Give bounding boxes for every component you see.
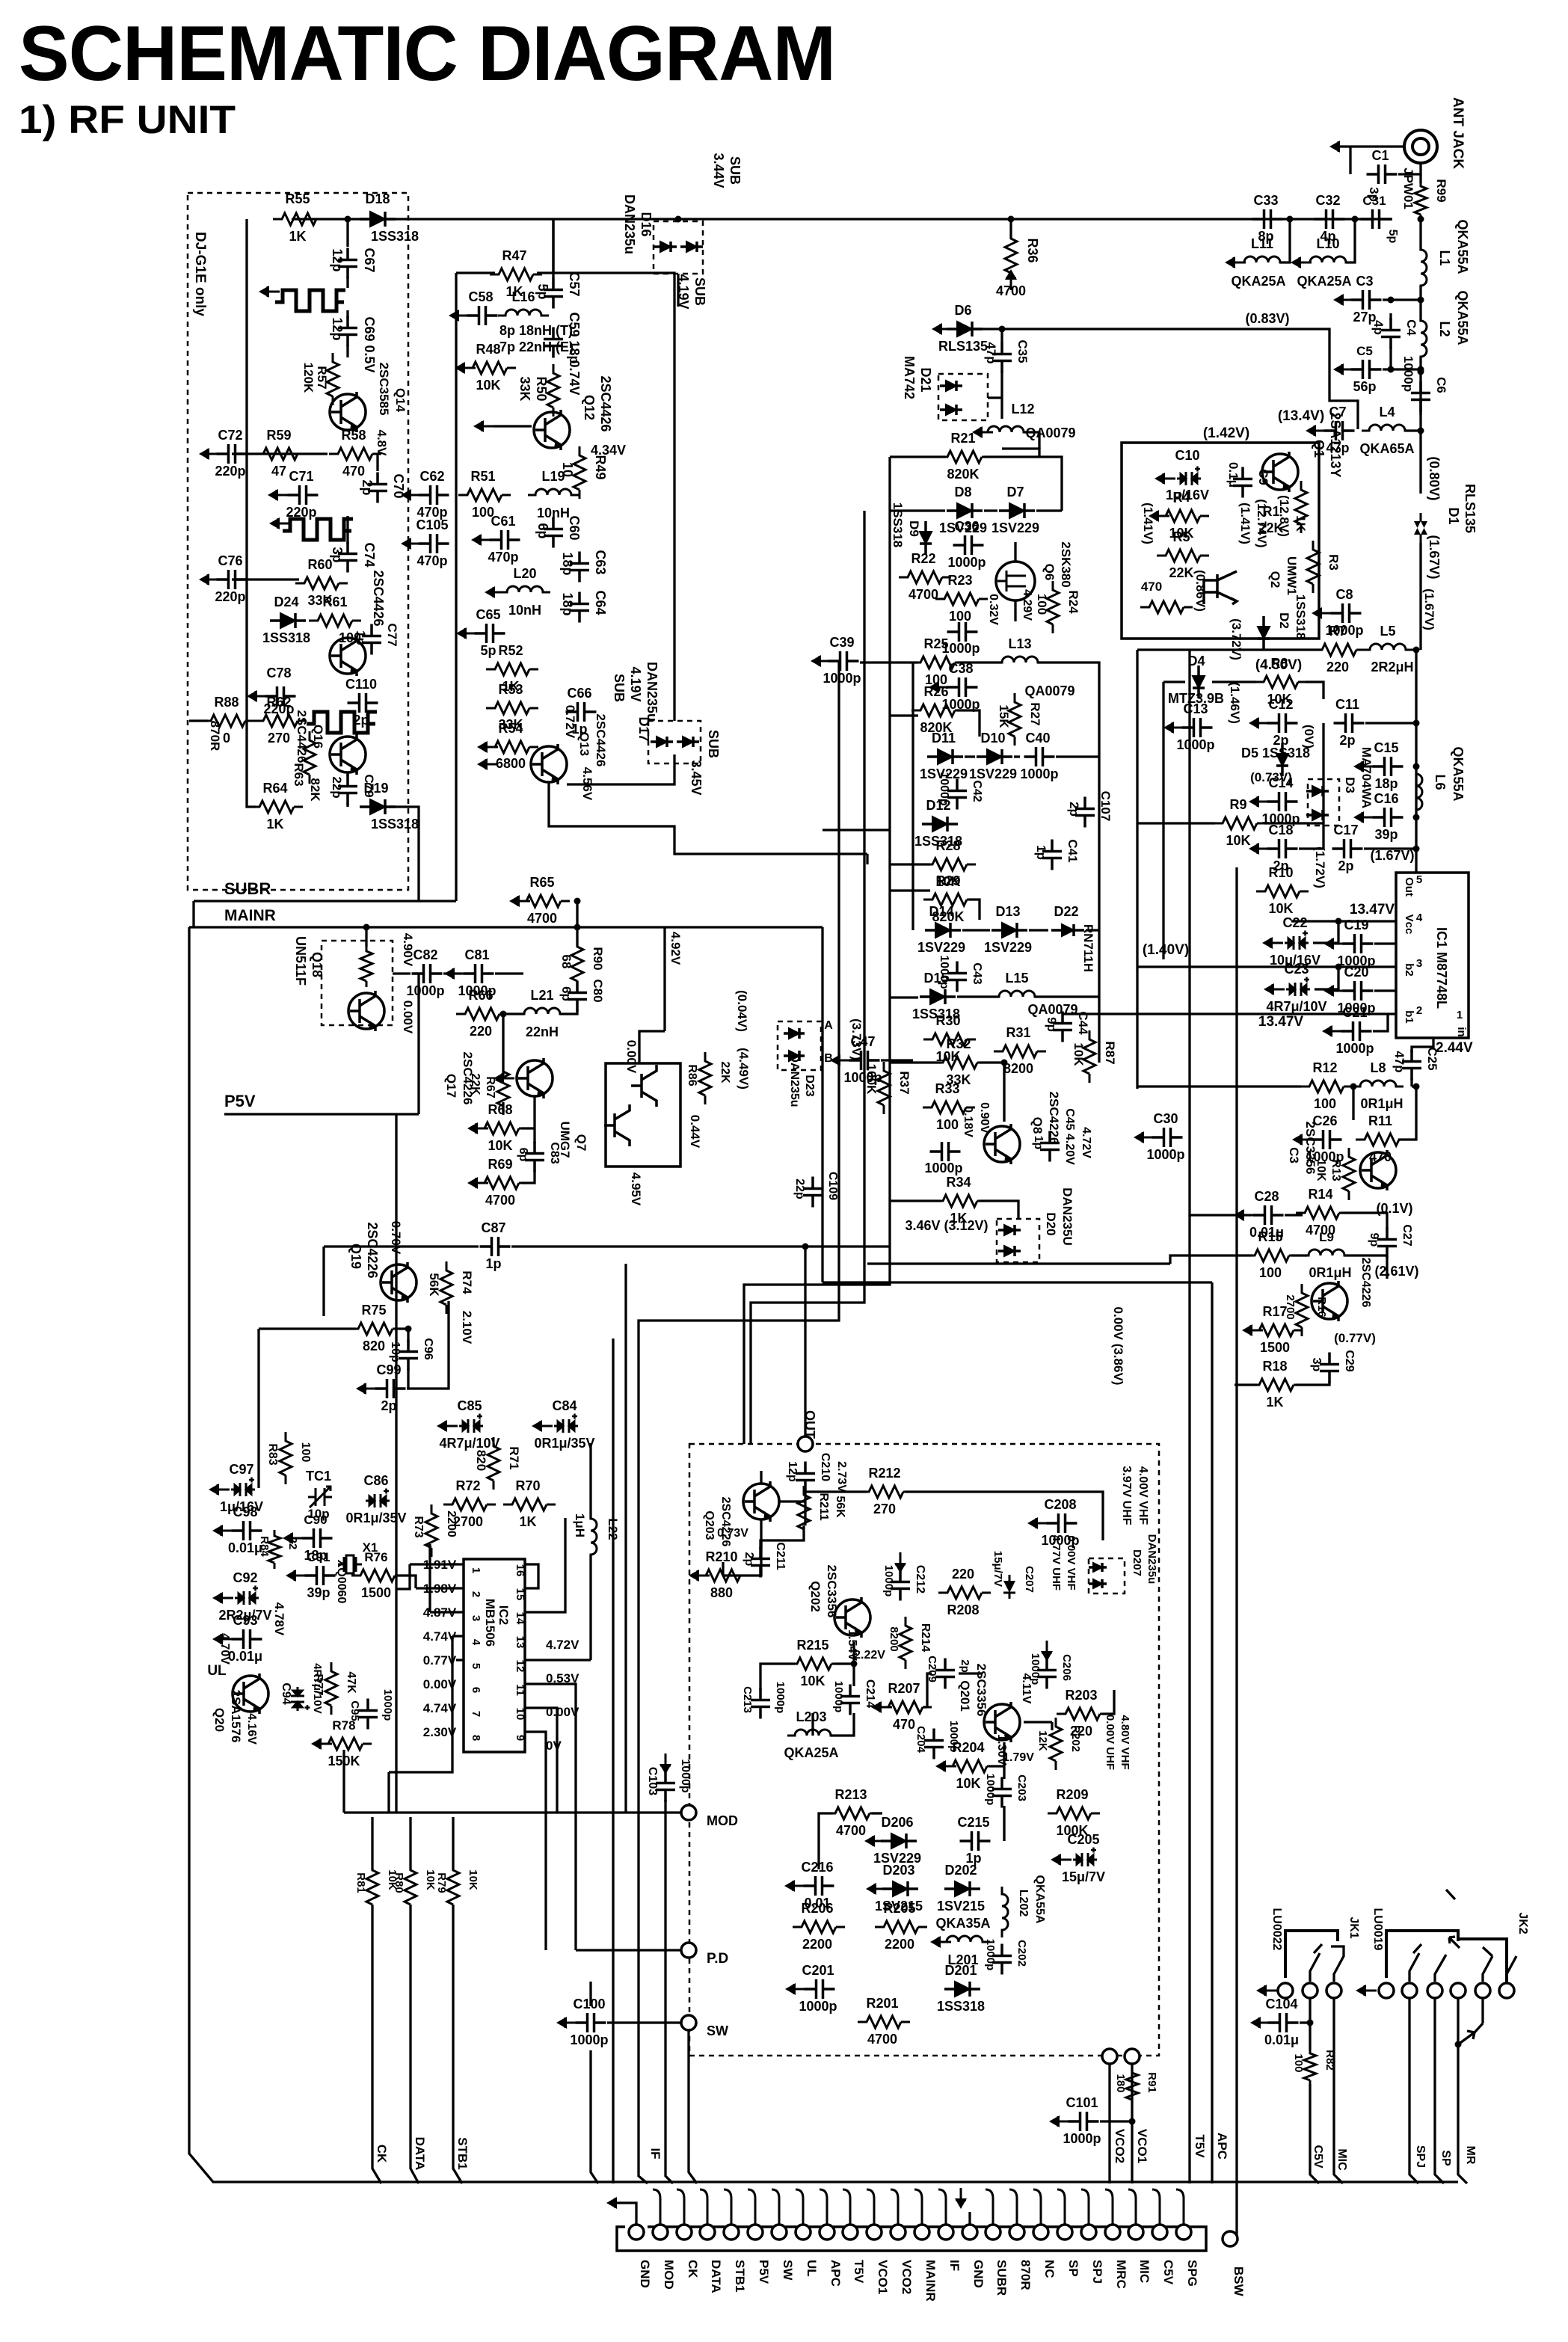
ground xyxy=(830,1054,851,1066)
diode D206 xyxy=(881,1834,917,1848)
svg-text:b2: b2 xyxy=(1403,963,1415,977)
resonator F2 xyxy=(283,519,353,540)
ground xyxy=(1353,811,1374,823)
capacitor C25 xyxy=(1402,1050,1421,1081)
resistor R76 xyxy=(351,1570,404,1582)
wire T5V down xyxy=(1188,1215,1190,2183)
svg-text:D5 1SS318: D5 1SS318 xyxy=(1241,746,1310,760)
svg-text:UN511F: UN511F xyxy=(293,936,308,986)
capacitor C105 xyxy=(419,534,449,553)
svg-text:2SC3356: 2SC3356 xyxy=(825,1565,839,1618)
wire xyxy=(1386,1256,1388,1279)
capacitor C26 xyxy=(1312,1130,1342,1149)
svg-text:C5V: C5V xyxy=(1312,2145,1324,2168)
wire xyxy=(1086,929,1099,931)
svg-text:10K: 10K xyxy=(488,1138,512,1153)
svg-text:C82: C82 xyxy=(413,947,437,962)
svg-text:2.73V: 2.73V xyxy=(835,1461,848,1493)
wire xyxy=(1419,543,1421,650)
ground xyxy=(866,1883,887,1895)
wire xyxy=(1353,219,1356,247)
wire xyxy=(1338,145,1404,147)
wire xyxy=(1398,163,1421,174)
capacitor C15 xyxy=(1373,757,1403,776)
svg-text:870R: 870R xyxy=(1018,2260,1033,2290)
wire xyxy=(821,1247,823,1282)
svg-text:R86: R86 xyxy=(686,1064,698,1086)
wire xyxy=(1352,1087,1354,1120)
svg-text:470: 470 xyxy=(893,1717,915,1732)
svg-text:D206: D206 xyxy=(881,1815,913,1830)
ground xyxy=(606,2197,627,2209)
resistor R50 xyxy=(547,364,559,417)
dashed box D20 xyxy=(997,1219,1039,1262)
dashed box VCO xyxy=(689,1444,1159,2056)
svg-text:0R1μ/35V: 0R1μ/35V xyxy=(345,1510,406,1525)
transistor Q8 xyxy=(984,1124,1020,1164)
svg-text:R69: R69 xyxy=(488,1157,512,1172)
svg-text:1p: 1p xyxy=(1032,1136,1045,1150)
svg-text:L8: L8 xyxy=(1370,1060,1386,1075)
svg-text:R8: R8 xyxy=(1270,656,1288,671)
svg-text:C81: C81 xyxy=(464,947,489,962)
capacitor C71 xyxy=(288,485,319,505)
svg-text:Q2: Q2 xyxy=(1268,571,1282,588)
junction xyxy=(851,1661,858,1668)
svg-text:R27: R27 xyxy=(1028,702,1042,725)
svg-text:VCO2: VCO2 xyxy=(1113,2129,1127,2163)
svg-text:(0.80V): (0.80V) xyxy=(1427,456,1442,500)
inductor L201 xyxy=(939,1936,990,1942)
capacitor C108 xyxy=(803,1177,823,1208)
inductor L10 xyxy=(1303,256,1353,262)
switch JK1 contacts xyxy=(1310,1944,1344,1982)
wire xyxy=(890,1199,941,1202)
svg-text:13.47V: 13.47V xyxy=(1258,1014,1304,1030)
svg-text:L20: L20 xyxy=(513,566,536,581)
svg-text:(12.8V): (12.8V) xyxy=(1277,495,1291,537)
svg-text:C65: C65 xyxy=(476,607,500,622)
capacitor C70 xyxy=(368,473,387,503)
ground xyxy=(401,489,422,501)
wire xyxy=(521,1127,535,1129)
capacitor C214 xyxy=(840,1685,860,1715)
IC U IC1 xyxy=(1396,873,1469,1038)
resistor R67 xyxy=(497,1063,509,1115)
node SW xyxy=(681,2015,696,2030)
capacitor C60 xyxy=(544,517,563,548)
pin STB1 xyxy=(724,2225,739,2240)
ground xyxy=(477,758,498,770)
svg-text:STB1: STB1 xyxy=(733,2260,747,2292)
capacitor C33 xyxy=(1252,209,1283,229)
svg-text:22K: 22K xyxy=(1169,565,1193,580)
capacitor C11 xyxy=(1334,713,1365,733)
svg-text:2SC3585: 2SC3585 xyxy=(377,363,391,416)
svg-text:22nH: 22nH xyxy=(526,1024,559,1039)
wire xyxy=(881,1059,913,1061)
wire xyxy=(1024,432,1039,449)
resistor R48 xyxy=(464,362,516,374)
svg-text:C96: C96 xyxy=(422,1338,434,1359)
svg-text:220: 220 xyxy=(470,1024,492,1039)
svg-text:22K: 22K xyxy=(469,1073,482,1095)
resistor R23 xyxy=(935,593,988,605)
svg-text:22p: 22p xyxy=(793,1178,806,1199)
wire xyxy=(823,829,890,831)
wire xyxy=(1212,680,1256,683)
svg-text:R70: R70 xyxy=(515,1478,540,1493)
svg-text:Q6: Q6 xyxy=(1042,564,1057,581)
wire xyxy=(821,927,823,1247)
svg-text:C78: C78 xyxy=(266,666,291,680)
svg-text:R11: R11 xyxy=(1368,1113,1392,1128)
wire xyxy=(1419,218,1421,251)
svg-text:4: 4 xyxy=(1416,912,1423,924)
svg-text:RLS135: RLS135 xyxy=(1463,484,1478,533)
svg-text:R201: R201 xyxy=(866,1996,898,2011)
ground xyxy=(1041,1641,1053,1662)
svg-text:R34: R34 xyxy=(946,1175,971,1190)
resistor R209 xyxy=(1048,1807,1100,1819)
svg-text:820: 820 xyxy=(363,1338,385,1353)
svg-text:IF: IF xyxy=(947,2260,962,2271)
svg-text:D1: D1 xyxy=(1446,507,1461,524)
wire xyxy=(723,1519,761,1576)
svg-text:R26: R26 xyxy=(923,684,948,699)
svg-text:C30: C30 xyxy=(1153,1111,1178,1126)
resistor R4 xyxy=(1157,510,1209,522)
capacitor C3 xyxy=(1351,290,1382,310)
wire xyxy=(927,1673,932,1707)
junction xyxy=(1352,216,1359,223)
svg-text:R78: R78 xyxy=(332,1718,355,1733)
wire left inner xyxy=(247,247,256,807)
wire MIC xyxy=(1334,1998,1343,2183)
capacitor C97 xyxy=(231,1478,255,1497)
svg-text:C61: C61 xyxy=(491,514,515,529)
pin GND xyxy=(962,2225,977,2240)
svg-text:C203: C203 xyxy=(1015,1774,1028,1801)
capacitor C78 xyxy=(265,686,296,706)
svg-text:1000p: 1000p xyxy=(570,2032,608,2047)
dashed box D21 xyxy=(938,374,988,420)
svg-text:B: B xyxy=(824,1052,833,1065)
ground xyxy=(268,489,289,501)
wire xyxy=(259,1327,356,1330)
svg-text:4R7μ/10V: 4R7μ/10V xyxy=(439,1436,499,1451)
svg-text:(13.4V): (13.4V) xyxy=(1278,408,1324,424)
wire xyxy=(1389,313,1392,320)
pin T5V xyxy=(843,2225,858,2240)
svg-text:C66: C66 xyxy=(567,686,591,701)
ground xyxy=(1323,938,1344,950)
wire xyxy=(567,754,674,784)
connector JK1 body xyxy=(1285,1931,1338,1978)
pin CK xyxy=(677,2225,692,2240)
svg-text:R4: R4 xyxy=(1172,490,1190,505)
capacitor C7 xyxy=(1324,421,1355,440)
svg-text:0.74V: 0.74V xyxy=(567,360,582,395)
svg-text:39p: 39p xyxy=(307,1585,330,1600)
wire xyxy=(525,1659,591,1661)
svg-text:GND: GND xyxy=(971,2260,986,2288)
svg-text:1000p: 1000p xyxy=(1146,1147,1184,1162)
capacitor C36 xyxy=(953,535,984,555)
wire xyxy=(831,1713,854,1736)
wire xyxy=(395,1329,408,1341)
wire xyxy=(456,271,495,274)
junction xyxy=(345,216,351,223)
ground xyxy=(1353,760,1374,772)
svg-text:QKA25A: QKA25A xyxy=(1231,274,1285,289)
pin JK1 tip xyxy=(1326,1983,1341,1998)
connector JK2 body xyxy=(1386,1931,1507,1983)
svg-text:10K: 10K xyxy=(1226,833,1250,848)
resistor Q18R xyxy=(360,945,372,987)
resistor R74 xyxy=(440,1261,452,1314)
capacitor C5 xyxy=(1351,360,1382,379)
svg-text:120K: 120K xyxy=(301,363,316,393)
svg-text:10K: 10K xyxy=(1315,1159,1327,1181)
resistor R3 xyxy=(1307,541,1319,593)
svg-text:9: 9 xyxy=(514,1735,526,1741)
capacitor C27 xyxy=(1377,1228,1397,1258)
ground xyxy=(932,323,953,335)
capacitor C62 xyxy=(419,485,449,505)
wire xyxy=(957,661,1002,663)
diode D16b xyxy=(680,242,703,252)
svg-text:NC: NC xyxy=(1042,2260,1057,2278)
svg-text:2SK380: 2SK380 xyxy=(1059,541,1073,587)
svg-text:5: 5 xyxy=(470,1663,482,1669)
wire xyxy=(1235,1383,1257,1386)
svg-text:D203: D203 xyxy=(882,1863,914,1878)
wire xyxy=(389,1636,452,1772)
svg-text:C22: C22 xyxy=(1282,915,1307,930)
svg-text:QA0079: QA0079 xyxy=(1024,683,1074,698)
svg-text:10p: 10p xyxy=(389,1341,402,1362)
svg-text:4.72V: 4.72V xyxy=(1080,1127,1092,1158)
ground xyxy=(930,1936,951,1948)
wire BSW line xyxy=(1235,867,1238,2239)
capacitor C41 xyxy=(1042,840,1062,870)
svg-text:5p: 5p xyxy=(535,283,550,299)
svg-text:C110: C110 xyxy=(345,677,377,692)
wire xyxy=(867,1262,1170,1264)
diode D20a xyxy=(998,1225,1021,1235)
svg-text:C76: C76 xyxy=(218,553,242,568)
pin JK2-5 xyxy=(1475,1983,1490,1998)
svg-text:STB1: STB1 xyxy=(455,2137,470,2169)
svg-text:C101: C101 xyxy=(1066,2095,1098,2110)
svg-text:D12: D12 xyxy=(926,798,950,813)
svg-text:13: 13 xyxy=(514,1636,526,1649)
svg-text:2: 2 xyxy=(1416,1004,1422,1017)
svg-text:18p: 18p xyxy=(560,552,575,575)
transistor Q15 xyxy=(330,636,366,676)
ground xyxy=(811,655,831,667)
resistor R79 xyxy=(447,1861,459,1914)
ground xyxy=(1155,473,1175,485)
svg-text:C28: C28 xyxy=(1254,1189,1279,1204)
ground xyxy=(449,310,470,322)
svg-text:R32: R32 xyxy=(946,1036,971,1051)
svg-text:C19: C19 xyxy=(1344,918,1368,932)
capacitor C61 xyxy=(490,530,520,550)
ground xyxy=(1322,1025,1343,1037)
svg-text:(0.04V): (0.04V) xyxy=(735,990,749,1032)
svg-text:DJ-G1E only: DJ-G1E only xyxy=(192,232,208,316)
resistor R78 xyxy=(319,1738,372,1750)
resistor R61 xyxy=(309,615,361,627)
pin JK2-6 xyxy=(1499,1983,1514,1998)
capacitor C84 xyxy=(554,1414,578,1433)
svg-text:Q17: Q17 xyxy=(444,1074,458,1098)
capacitor C9 xyxy=(1233,467,1252,498)
svg-text:R88: R88 xyxy=(214,695,239,710)
capacitor C17 xyxy=(1332,839,1363,858)
svg-text:0.18V: 0.18V xyxy=(962,1106,974,1137)
wire xyxy=(324,1245,479,1247)
resistor R28 xyxy=(923,858,976,870)
svg-text:Out: Out xyxy=(1403,877,1415,897)
svg-text:220p: 220p xyxy=(215,589,245,604)
svg-text:L9: L9 xyxy=(1319,1230,1334,1244)
resistor R63 xyxy=(304,731,316,784)
svg-text:C14: C14 xyxy=(1268,775,1293,790)
diode D21b xyxy=(940,405,962,415)
svg-text:L11: L11 xyxy=(1251,236,1273,251)
resistor R24 xyxy=(1047,581,1059,633)
svg-text:C71: C71 xyxy=(289,469,313,484)
svg-text:C23: C23 xyxy=(1284,962,1309,977)
svg-text:C32: C32 xyxy=(1315,193,1340,208)
svg-text:R83: R83 xyxy=(266,1443,279,1465)
svg-text:Q201: Q201 xyxy=(958,1680,972,1712)
svg-text:C57: C57 xyxy=(567,271,582,296)
transistor Q19 xyxy=(381,1262,416,1303)
svg-text:(12.74V): (12.74V) xyxy=(1255,499,1269,547)
diode D21a xyxy=(940,381,962,391)
svg-text:2200: 2200 xyxy=(885,1937,914,1952)
capacitor C35 xyxy=(992,342,1012,373)
inductor L5 xyxy=(1362,644,1413,650)
svg-text:QKA55A: QKA55A xyxy=(1455,219,1470,274)
junction xyxy=(1001,1060,1008,1066)
resistor R53 xyxy=(486,702,538,714)
junction OUT xyxy=(802,1244,809,1250)
resistor R27 xyxy=(1009,693,1021,746)
ground xyxy=(467,1177,488,1189)
capacitor C76 xyxy=(217,570,248,589)
svg-text:C5: C5 xyxy=(1356,344,1373,358)
capacitor C95 xyxy=(358,1699,378,1730)
svg-text:R203: R203 xyxy=(1065,1688,1097,1703)
resistor R6a xyxy=(1140,601,1193,613)
wire xyxy=(525,1708,557,1787)
svg-text:SUB: SUB xyxy=(692,277,707,306)
svg-text:OUT: OUT xyxy=(802,1410,817,1439)
wire xyxy=(1137,648,1321,651)
capacitor C82 xyxy=(412,964,443,983)
diode D16a xyxy=(654,242,677,252)
pin SUBR xyxy=(986,2225,1000,2240)
wire xyxy=(589,1982,591,2006)
svg-text:R67: R67 xyxy=(484,1076,496,1098)
wire xyxy=(984,457,1062,511)
capacitor C12 xyxy=(1267,713,1298,733)
wire xyxy=(500,1012,524,1015)
wire xyxy=(1344,1254,1387,1256)
wire xyxy=(969,900,980,920)
resistor R31 xyxy=(994,1045,1046,1057)
svg-text:R71: R71 xyxy=(507,1446,521,1469)
svg-text:10K: 10K xyxy=(1072,1042,1086,1066)
svg-text:C4: C4 xyxy=(1404,319,1418,336)
capacitor C28 xyxy=(1253,1205,1284,1225)
svg-text:(0.77V): (0.77V) xyxy=(1334,1331,1376,1345)
svg-text:D15: D15 xyxy=(923,971,948,986)
svg-text:L2: L2 xyxy=(1437,321,1452,336)
wire xyxy=(407,1368,408,1389)
pin UL xyxy=(796,2225,811,2240)
node VCO2 pin xyxy=(1102,2049,1117,2064)
wire xyxy=(1299,847,1323,849)
svg-text:1SS318: 1SS318 xyxy=(371,229,419,244)
svg-text:56K: 56K xyxy=(427,1273,441,1297)
svg-text:820K: 820K xyxy=(947,467,979,482)
svg-text:R23: R23 xyxy=(947,573,972,588)
capacitor C203 xyxy=(992,1777,1012,1808)
svg-text:D10: D10 xyxy=(980,731,1005,746)
svg-text:D6: D6 xyxy=(954,303,971,318)
wire SUBR xyxy=(194,900,456,902)
capacitor C6 xyxy=(1411,381,1430,412)
transistor Q18b xyxy=(348,991,384,1031)
svg-text:C16: C16 xyxy=(1374,791,1398,806)
capacitor C10 xyxy=(1177,467,1201,486)
inductor L202 xyxy=(1002,1887,1008,1937)
svg-text:GND: GND xyxy=(638,2260,652,2288)
wire C5V xyxy=(1310,2084,1319,2183)
svg-text:LU0019: LU0019 xyxy=(1371,1908,1384,1951)
svg-text:14: 14 xyxy=(514,1612,526,1625)
capacitor C14 xyxy=(1267,792,1298,811)
diode D3a xyxy=(1306,786,1329,796)
wire xyxy=(677,274,679,307)
ground xyxy=(283,1532,304,1544)
resistor R25 xyxy=(911,657,964,669)
svg-text:4.77V UHF: 4.77V UHF xyxy=(1050,1535,1063,1590)
svg-text:(4.49V): (4.49V) xyxy=(737,1048,751,1089)
capacitor C83 xyxy=(525,1142,544,1172)
svg-text:C202: C202 xyxy=(1015,1940,1028,1967)
svg-text:JK2: JK2 xyxy=(1516,1912,1529,1934)
svg-text:2.10V: 2.10V xyxy=(460,1311,474,1344)
svg-text:10K: 10K xyxy=(1268,901,1293,916)
svg-text:3p: 3p xyxy=(1310,1358,1323,1372)
diode D207b xyxy=(1089,1579,1107,1588)
svg-text:C12: C12 xyxy=(1268,697,1293,712)
diode D4 xyxy=(1193,666,1205,698)
svg-text:C60: C60 xyxy=(567,515,582,540)
svg-text:C100: C100 xyxy=(573,1997,605,2011)
svg-text:APC: APC xyxy=(1215,2133,1229,2160)
svg-text:2p: 2p xyxy=(959,1659,971,1673)
wire xyxy=(890,1061,941,1063)
junction xyxy=(1413,814,1420,821)
